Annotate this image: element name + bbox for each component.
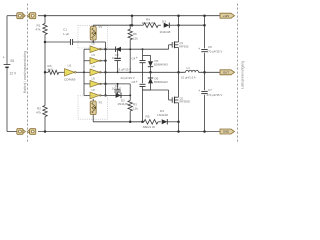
- svg-text:IRF530: IRF530: [180, 44, 189, 48]
- svg-text:47k: 47k: [36, 111, 41, 115]
- svg-text:D3: D3: [162, 19, 166, 23]
- svg-text:Batterij / voedingsaansluiting: Batterij / voedingsaansluiting: [23, 51, 27, 93]
- svg-text:1 µF: 1 µF: [63, 32, 69, 36]
- svg-text:4k7: 4k7: [48, 67, 53, 71]
- svg-text:U4: U4: [92, 65, 96, 69]
- svg-text:U3: U3: [92, 53, 96, 57]
- svg-text:+12V: +12V: [223, 14, 230, 18]
- svg-text:P2: P2: [99, 100, 103, 104]
- svg-text:47k: 47k: [36, 28, 41, 32]
- svg-text:470 µF/35 V: 470 µF/35 V: [207, 50, 223, 54]
- svg-text:.68Ω/1 W: .68Ω/1 W: [141, 21, 154, 25]
- svg-text:+: +: [198, 47, 200, 51]
- svg-text:Luidsprekeruitgang: Luidsprekeruitgang: [241, 61, 245, 89]
- svg-text:+: +: [136, 56, 138, 60]
- svg-text:470 µF/35 V: 470 µF/35 V: [207, 93, 223, 97]
- svg-text:C5: C5: [208, 45, 212, 49]
- svg-text:12 V: 12 V: [10, 72, 17, 76]
- svg-text:B1: B1: [11, 59, 15, 63]
- svg-text:D5: D5: [155, 59, 159, 63]
- svg-text:22 µF/15 V: 22 µF/15 V: [121, 76, 135, 80]
- svg-text:U1: U1: [68, 63, 72, 67]
- svg-text:U2: U2: [92, 42, 96, 46]
- svg-text:.68Ω/1 W: .68Ω/1 W: [142, 125, 155, 129]
- svg-text:IRF9530: IRF9530: [180, 100, 191, 104]
- svg-text:U5: U5: [92, 76, 96, 80]
- svg-text:1N4148: 1N4148: [157, 113, 168, 117]
- svg-text:BD684GH5: BD684GH5: [154, 80, 168, 84]
- svg-text:1N4148: 1N4148: [160, 30, 171, 34]
- svg-text:GND: GND: [223, 130, 229, 134]
- svg-text:R5: R5: [146, 115, 150, 119]
- svg-text:OUT: OUT: [223, 70, 229, 74]
- svg-text:+: +: [136, 80, 138, 84]
- svg-text:C1: C1: [63, 28, 67, 32]
- svg-text:CD4069: CD4069: [64, 77, 76, 81]
- svg-text:BD684GH5: BD684GH5: [154, 63, 168, 67]
- svg-text:D6: D6: [155, 77, 159, 81]
- svg-text:100 µF: 100 µF: [112, 56, 121, 60]
- svg-text:12k: 12k: [133, 107, 138, 111]
- svg-text:C7: C7: [208, 88, 212, 92]
- svg-text:22 µF/15 V: 22 µF/15 V: [117, 67, 131, 71]
- svg-text:12k: 12k: [133, 36, 138, 40]
- svg-text:1N4148: 1N4148: [118, 102, 129, 106]
- svg-text:+: +: [198, 89, 200, 93]
- svg-text:10 µH/1.5 A: 10 µH/1.5 A: [181, 75, 196, 79]
- svg-text:L1: L1: [187, 66, 191, 70]
- svg-text:U6: U6: [92, 88, 96, 92]
- svg-text:+: +: [3, 56, 5, 60]
